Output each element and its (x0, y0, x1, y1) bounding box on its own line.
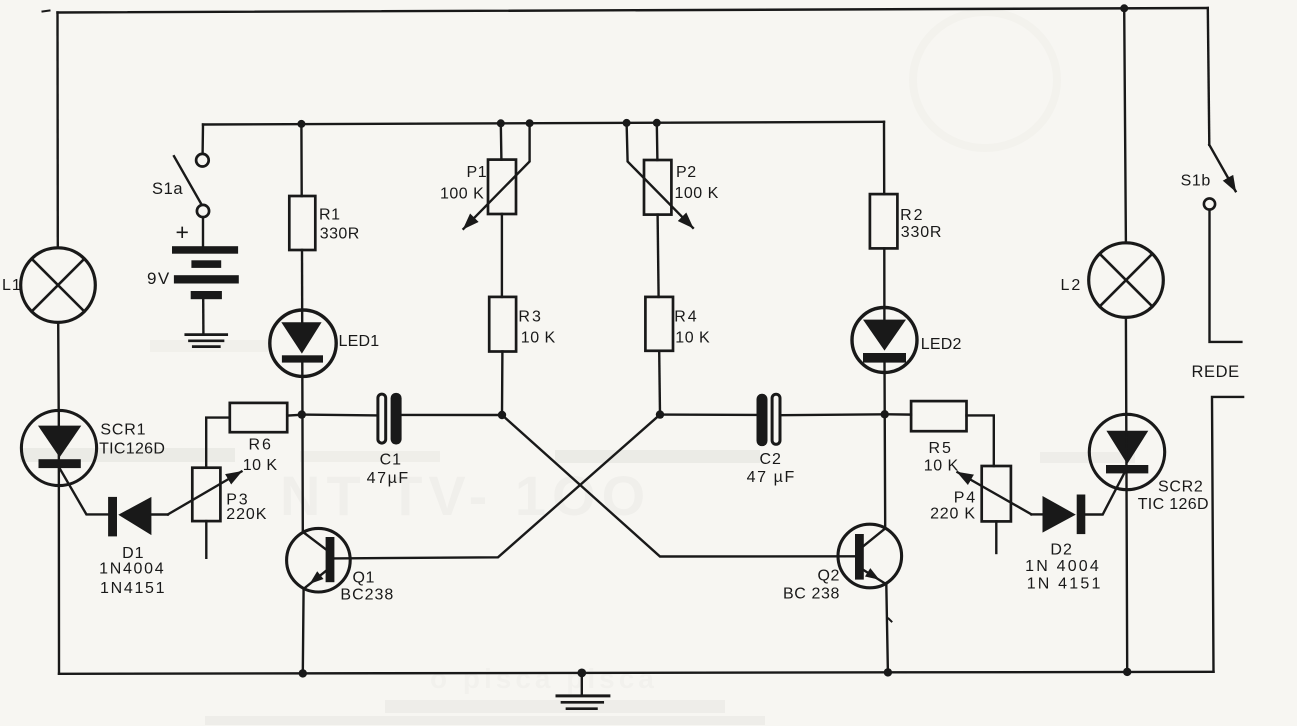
node P2 body top (653, 119, 661, 127)
svg-text:10 K: 10 K (243, 457, 278, 474)
svg-text:47µF: 47µF (367, 470, 410, 487)
svg-text:TIC126D: TIC126D (99, 441, 165, 458)
node L2 top bus (1120, 4, 1128, 12)
wire: R3 to node (501, 352, 504, 416)
node R6 LED1 Q1 (298, 410, 306, 418)
wire: inner +9V bus (203, 122, 884, 125)
wire: D2 to SCR2 gate (1085, 474, 1124, 515)
SCR2 TIC126D (1089, 414, 1164, 489)
wire: node to C1 (302, 413, 378, 416)
resistor R3 (489, 297, 516, 352)
wire: R1 to LED1 (301, 250, 304, 323)
node P1 body top (497, 119, 505, 127)
svg-text:C2: C2 (760, 451, 782, 468)
wire: top supply bus (58, 8, 1208, 13)
resistor R4 (645, 297, 673, 351)
node Q2 emitter bottom (884, 668, 892, 676)
svg-text:R2: R2 (900, 207, 924, 224)
switch S1a (174, 154, 209, 217)
capacitor C2 (757, 394, 781, 446)
wire: LED1 down through node to Q1 (301, 363, 304, 532)
resistor R5 (911, 401, 966, 431)
wire: P1 to R3 (501, 214, 503, 297)
wire: left bus through SCR1 to bottom bus (58, 411, 61, 674)
svg-text:R5: R5 (929, 440, 953, 457)
node SCR2 bottom (1123, 668, 1131, 676)
resistor R2 (870, 194, 898, 248)
svg-text:R6: R6 (249, 437, 273, 454)
wire: S1a to battery (202, 217, 204, 246)
svg-text:R1: R1 (319, 207, 341, 224)
node Q1 emitter bottom (299, 669, 307, 677)
SCR1 TIC126D (21, 410, 96, 485)
wire: P3 top to R6 (206, 418, 230, 468)
potentiometer P3 (168, 468, 242, 558)
LED1 (270, 310, 336, 376)
diode D1 (108, 497, 151, 537)
wire: P2 wiper from bus (627, 123, 693, 228)
wire: C2 to node (781, 413, 885, 416)
svg-text:REDE: REDE (1192, 363, 1240, 381)
capacitor C1 (378, 393, 402, 445)
wire: node to R5 (885, 413, 911, 416)
wire: battery to ground (202, 299, 205, 334)
svg-text:Q1: Q1 (353, 570, 376, 587)
svg-text:1N4004: 1N4004 (99, 561, 165, 578)
node P2 wiper top (623, 119, 631, 127)
wire: P1 body drop from bus (500, 123, 503, 159)
svg-text:BC 238: BC 238 (783, 586, 840, 603)
LED2 (852, 308, 917, 373)
wire: P4 to D2 (1031, 513, 1042, 515)
svg-text:10 K: 10 K (521, 330, 556, 347)
wire: bottom ground bus (59, 672, 1214, 674)
svg-text:S1a: S1a (152, 180, 183, 198)
wire: left bus upper (top bus to L1) (56, 13, 59, 248)
wire: Q2 emitter to bottom bus (886, 584, 888, 672)
ground main (557, 673, 609, 709)
svg-text:TIC 126D: TIC 126D (1138, 496, 1209, 513)
svg-text:LED1: LED1 (339, 333, 380, 350)
svg-text:L1: L1 (2, 277, 22, 294)
wire: left bus L1 to SCR1 (57, 322, 60, 411)
wire: S1b to REDE terminal 1 (1210, 210, 1242, 342)
svg-text:100 K: 100 K (440, 186, 484, 203)
wire: L2 through SCR2 to bottom bus (1126, 317, 1127, 672)
resistor R6 (230, 403, 287, 432)
wire: LED2 down through node to Q2 collector (883, 363, 886, 529)
svg-text:D1: D1 (122, 545, 144, 562)
svg-text:R4: R4 (674, 309, 698, 326)
transistor Q1 (287, 528, 351, 592)
svg-text:1N 4004: 1N 4004 (1025, 558, 1101, 575)
svg-text:LED2: LED2 (921, 336, 962, 353)
transistor Q2 (838, 524, 902, 588)
svg-text:P4: P4 (954, 489, 977, 506)
svg-text:1N 4151: 1N 4151 (1027, 576, 1103, 593)
svg-text:330R: 330R (320, 226, 360, 243)
wire: REDE terminal 2 (1212, 397, 1243, 672)
svg-text:47 µF: 47 µF (747, 469, 796, 486)
potentiometer P4 (958, 466, 1032, 553)
battery B1 9V (172, 246, 239, 299)
wire: D1 to P3 wiper (151, 513, 168, 515)
svg-text:R3: R3 (518, 309, 542, 326)
lamp L2 (1089, 243, 1164, 318)
wire: Q1 emitter to bottom bus (302, 589, 305, 674)
wire: R2 to LED2 (883, 248, 886, 320)
svg-text:P1: P1 (467, 164, 488, 181)
svg-text:SCR1: SCR1 (100, 422, 146, 439)
potentiometer P2 (644, 160, 671, 215)
svg-text:100 K: 100 K (675, 185, 719, 202)
svg-text:330R: 330R (901, 224, 942, 241)
resistor R1 (289, 196, 315, 250)
svg-text:C1: C1 (380, 451, 402, 468)
wire: R4 to node (658, 351, 661, 415)
svg-text:9V: 9V (147, 269, 171, 288)
ground battery (186, 335, 227, 347)
svg-text:Q2: Q2 (818, 568, 841, 585)
wire: SCR1 gate to D1 (60, 468, 109, 514)
wire: R6 to node (287, 414, 302, 417)
svg-text:SCR2: SCR2 (1158, 478, 1203, 495)
svg-text:1N4151: 1N4151 (100, 580, 166, 597)
node R4 C2 (656, 410, 664, 418)
svg-text:S1b: S1b (1181, 172, 1211, 189)
wire: C1 to R3 node (402, 414, 502, 417)
node C2 R5 LED2 (881, 410, 889, 418)
svg-text:BC238: BC238 (340, 587, 394, 604)
wire: P2 body drop from bus (656, 123, 659, 160)
wire: R5 to P4 corner (967, 415, 994, 466)
wire: cross-couple node R4 to Q1 base (335, 415, 660, 559)
lamp L1 (21, 248, 96, 323)
svg-text:L2: L2 (1061, 277, 1083, 294)
wire: L2 top drop from bus node (1124, 8, 1126, 243)
wire: R2 drop from inner bus (883, 122, 886, 194)
potentiometer P1 (464, 123, 530, 229)
switch S1b (1204, 145, 1236, 210)
svg-text:D2: D2 (1050, 542, 1072, 559)
svg-text:+: + (176, 219, 189, 245)
wire: cross-couple node R3 to Q2 base (502, 415, 855, 557)
svg-text:P2: P2 (676, 164, 697, 181)
diode D2 (1043, 495, 1086, 535)
node P1 wiper top (526, 119, 534, 127)
svg-text:o pisca pisca: o pisca pisca (430, 663, 658, 694)
wire: P2 to R4 (658, 215, 659, 297)
wire: S1a drop from inner bus (201, 125, 204, 154)
svg-text:220 K: 220 K (930, 506, 976, 523)
wire: top bus corner to S1b (1208, 8, 1210, 145)
node ground bottom (577, 669, 586, 678)
wire: node to C2 (660, 413, 757, 416)
svg-text:220K: 220K (226, 506, 267, 523)
node R3 C1 (498, 411, 506, 419)
node R1 top (297, 120, 305, 128)
svg-text:10 K: 10 K (675, 330, 710, 347)
wire: R1 drop from inner bus (300, 123, 303, 196)
svg-text:NT TV- 1OO: NT TV- 1OO (280, 464, 651, 527)
svg-text:10 K: 10 K (924, 457, 959, 474)
